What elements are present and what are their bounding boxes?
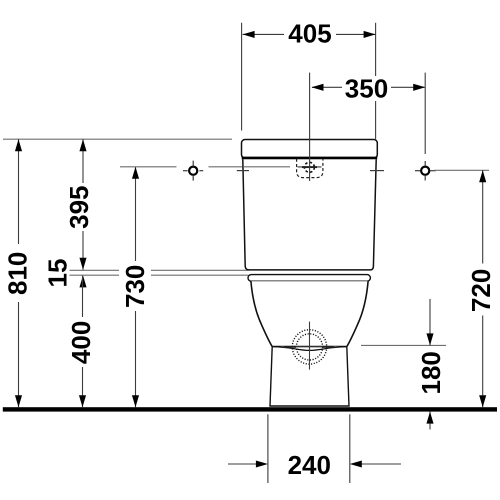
left fixing hole <box>183 161 203 181</box>
dimension 395 vertical line <box>79 139 86 270</box>
dimension 350 <box>310 73 426 176</box>
dimension text 405 <box>288 19 331 49</box>
dimension text 395 <box>64 186 94 229</box>
drain height reference line (180 level) <box>361 344 446 346</box>
tank edge tick marks at fixing hole level <box>237 170 384 172</box>
top reference line (tank top level) <box>3 138 232 140</box>
dimension 400 vertical line <box>79 275 86 407</box>
seat joint ring (15mm band) <box>248 275 370 282</box>
flush button height reference line across tank <box>243 166 290 168</box>
bowl outline <box>251 281 368 346</box>
floor line <box>3 407 497 411</box>
dimension text 240 <box>288 450 331 480</box>
dimension 720 vertical line <box>479 170 486 407</box>
dimension 15 outside arrow below <box>79 275 86 287</box>
cistern tank body <box>243 159 376 270</box>
dimension text 730 <box>120 265 150 308</box>
dimension 405 <box>242 23 376 139</box>
dimension text 180 <box>416 351 446 394</box>
drain crosshair <box>284 322 334 370</box>
svg-text:15: 15 <box>43 259 73 288</box>
dimension text 720 <box>466 269 496 312</box>
extension lines for 240 below floor <box>268 414 350 483</box>
svg-text:810: 810 <box>3 252 33 295</box>
toilet centerline through lid to flush button <box>309 139 311 181</box>
flush button circle <box>298 162 322 172</box>
flush button height reference line <box>120 166 290 168</box>
dimension 810 vertical line <box>15 139 22 407</box>
extension lines for 15 (tank bottom and seat ring level) <box>70 270 249 275</box>
fixing hole height reference line for 720 <box>434 169 489 171</box>
drain outlet dotted circles <box>292 330 326 364</box>
svg-text:350: 350 <box>345 73 388 103</box>
svg-text:240: 240 <box>288 450 331 480</box>
cistern lid <box>242 140 378 159</box>
svg-text:405: 405 <box>288 19 331 49</box>
dimension text 400 <box>66 321 96 364</box>
dimension 240 <box>228 460 401 467</box>
dimension 730 vertical line <box>132 167 139 407</box>
pedestal foot <box>270 347 349 406</box>
svg-text:720: 720 <box>466 269 496 312</box>
dimension text 15 <box>43 259 73 288</box>
svg-text:180: 180 <box>416 351 446 394</box>
svg-text:730: 730 <box>120 265 150 308</box>
svg-text:395: 395 <box>64 186 94 229</box>
flush button dashed outline <box>297 159 323 178</box>
right fixing hole <box>415 161 436 181</box>
svg-text:400: 400 <box>66 321 96 364</box>
dimension text 810 <box>3 252 33 295</box>
dimension 180 vertical line <box>426 299 433 430</box>
dimension text 350 <box>345 73 388 103</box>
